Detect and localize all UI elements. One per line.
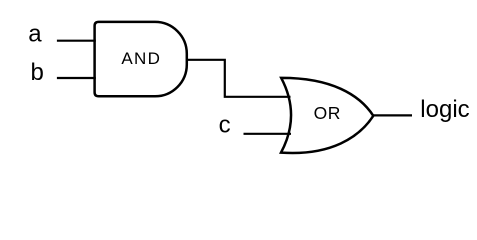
wire OR output <box>373 114 412 116</box>
wire a input to AND <box>57 40 96 42</box>
wire AND output jog to OR upper input <box>186 60 290 97</box>
svg-text:AND: AND <box>121 49 161 68</box>
AND gate U1 <box>95 22 187 96</box>
svg-text:OR: OR <box>314 103 341 123</box>
wire c input to OR <box>244 133 292 135</box>
svg-text:logic: logic <box>420 96 469 123</box>
svg-text:c: c <box>219 112 231 139</box>
OR gate U2 <box>281 78 373 153</box>
wire b input to AND <box>57 77 96 79</box>
svg-text:a: a <box>28 21 42 48</box>
svg-text:b: b <box>31 59 44 86</box>
